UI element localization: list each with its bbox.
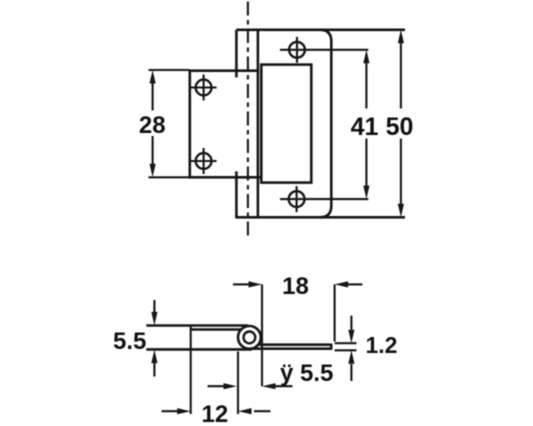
svg-text:5.5: 5.5 <box>113 328 146 355</box>
svg-text:ÿ 5.5: ÿ 5.5 <box>280 360 333 387</box>
svg-text:50: 50 <box>386 113 414 141</box>
svg-text:18: 18 <box>282 273 309 300</box>
svg-text:12: 12 <box>202 401 229 426</box>
svg-text:28: 28 <box>139 112 166 139</box>
svg-text:41: 41 <box>351 113 379 141</box>
svg-text:1.2: 1.2 <box>366 332 398 358</box>
